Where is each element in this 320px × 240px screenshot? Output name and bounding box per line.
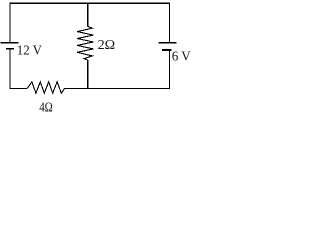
svg-text:4Ω: 4Ω: [39, 101, 53, 116]
resistor 4 ohm (horizontal zigzag): [27, 82, 64, 93]
wire middle branch upper (top rail to 2-ohm resistor): [87, 3, 89, 26]
resistor 2 ohm (vertical zigzag): [77, 26, 93, 60]
wire bottom left stub (corner to 4-ohm resistor): [9, 87, 27, 89]
wire middle branch lower (2-ohm resistor to bottom rail): [87, 60, 89, 89]
wire left upper (top-left corner to battery positive plate): [9, 3, 11, 43]
battery 6 V short (negative) plate: [162, 49, 172, 51]
wire bottom right segment (4-ohm resistor to bottom-right corner): [65, 87, 171, 89]
svg-text:12 V: 12 V: [17, 43, 42, 58]
wire left lower (battery negative plate to bottom-left corner): [9, 49, 11, 89]
battery 12 V short (negative) plate: [6, 48, 14, 50]
wire right lower (battery negative plate to bottom-right corner): [168, 50, 170, 89]
battery 12 V long (positive) plate: [1, 42, 19, 44]
svg-text:6 V: 6 V: [172, 49, 191, 64]
wire top rail: [9, 2, 170, 4]
svg-text:2Ω: 2Ω: [98, 38, 116, 53]
battery 6 V long (positive) plate: [158, 42, 176, 44]
wire right upper (top-right corner to battery positive plate): [168, 3, 170, 42]
